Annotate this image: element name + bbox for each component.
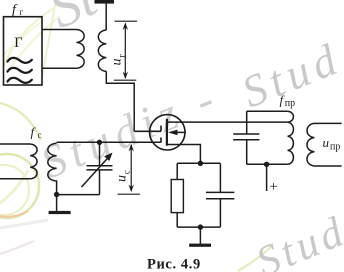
label f_g — [12, 3, 24, 18]
svg-text:с: с — [38, 130, 42, 140]
label u_c (rotated) — [115, 170, 132, 182]
label u_g (rotated) — [110, 54, 127, 66]
transformer T2 primary winding — [30, 144, 37, 179]
variable capacitor C1 — [82, 142, 113, 194]
svg-text:пр: пр — [285, 98, 295, 109]
wire RC bottom — [177, 226, 220, 228]
svg-text:г: г — [20, 7, 24, 17]
tank circuit bottom wire — [247, 163, 288, 165]
svg-text:Г: Г — [14, 35, 22, 51]
node junction tank bottom / +supply — [264, 162, 269, 167]
wire generator to T1 primary (bottom) — [42, 67, 77, 69]
wire input to T2 primary (top) — [0, 143, 30, 145]
tank circuit top wire — [247, 110, 288, 112]
generator box — [4, 17, 43, 85]
inductor L2 (output winding) — [307, 123, 342, 166]
wire source down to RC — [167, 145, 201, 164]
svg-text:Рис. 4.9: Рис. 4.9 — [147, 257, 201, 272]
transformer T1 secondary winding — [98, 30, 106, 71]
wire generator to T1 primary (top) — [42, 29, 77, 31]
wire input to T2 primary (bottom) — [0, 178, 30, 180]
label u_pr — [323, 135, 341, 153]
capacitor C2 (source bypass) — [206, 163, 234, 227]
svg-text:u: u — [115, 175, 130, 182]
wire T2 secondary top to gate 2 — [57, 141, 161, 143]
VT1 gate 1 electrode — [134, 126, 161, 132]
+supply lead — [266, 164, 268, 191]
transistor VT1 (dual-gate MOSFET) circle — [150, 115, 185, 150]
capacitor C3 (tank) — [233, 111, 259, 164]
svg-text:f: f — [31, 125, 37, 140]
label f_c — [31, 125, 42, 141]
generator wave symbol — [8, 58, 32, 83]
ground (RC network) — [189, 227, 211, 247]
resistor R1 — [171, 163, 183, 227]
node junction T2 top / varcap — [97, 140, 102, 145]
svg-text:u: u — [110, 59, 125, 66]
watermark swirl top-left — [0, 0, 272, 271]
watermark leaf logo — [0, 103, 48, 228]
svg-text:+: + — [270, 179, 278, 195]
wire T1 secondary bottom to gate 1 corner — [106, 71, 134, 131]
wire RC top — [177, 162, 220, 164]
voltage arrow u_g — [114, 21, 137, 80]
svg-text:г: г — [117, 54, 127, 58]
ground (top, T1 secondary) — [95, 0, 115, 30]
svg-text:Stud: Stud — [250, 207, 344, 272]
svg-text:пр: пр — [330, 142, 340, 153]
VT1 substrate arrow — [168, 130, 186, 136]
svg-text:с: с — [122, 170, 132, 174]
ground (T2 secondary) — [49, 195, 71, 215]
node junction T2 bottom — [54, 192, 59, 197]
transformer T2 secondary winding — [48, 143, 57, 194]
voltage arrow u_c — [118, 144, 140, 194]
svg-text:f: f — [12, 3, 18, 18]
VT1 gate 2 electrode — [160, 137, 162, 142]
VT1 channel — [166, 119, 168, 146]
label f_pr — [280, 93, 296, 110]
node junction source/RC — [198, 161, 203, 166]
inductor L1 (tank winding with tap) — [288, 111, 294, 164]
node junction RC bottom — [198, 224, 203, 229]
svg-text:u: u — [323, 135, 330, 150]
transformer T1 primary winding — [77, 30, 85, 69]
wire T2 bottom to varcap — [57, 194, 100, 196]
wire drain to tank coil tap — [167, 121, 288, 123]
